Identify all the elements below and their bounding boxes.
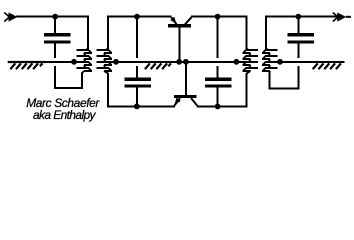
wire bottom rail middle box right: [197, 105, 248, 107]
wire top rail middle box left: [107, 16, 172, 18]
wire C4 top lead: [298, 17, 300, 34]
wire L2 bottom exit (middle box left edge): [107, 73, 109, 107]
inductor L2 (left transformer secondary, loops bulge left, spine x=108): [97, 49, 113, 74]
transistor Q2 (PNP, bottom) base bar: [174, 95, 197, 98]
wire C3 top lead with break hop at mid rail: [217, 17, 219, 78]
ground G2 (middle chassis ground hatching): [145, 63, 171, 69]
wire top rail middle box right: [191, 16, 247, 18]
wire C1 top lead: [54, 17, 56, 34]
inductor L4 (right transformer secondary, loops bulge right, spine x=266): [262, 49, 279, 74]
input arrow terminal: [4, 12, 17, 21]
node dot C3 bottom: [215, 104, 221, 110]
wire L4 top entry: [265, 16, 267, 50]
node dot C4 top: [295, 14, 301, 20]
capacitor C4 plates: [287, 33, 314, 43]
transistor Q1 emitter line: [171, 17, 176, 24]
caption text line 2: [33, 108, 95, 122]
wire C2 top lead with break hop at mid rail: [136, 17, 138, 78]
wire L1 top entry: [87, 16, 89, 50]
node dot C2 top: [134, 14, 140, 20]
wire mid rail middle (L2 tap to L3 tap): [108, 61, 243, 63]
transistor Q2 emitter line: [174, 98, 180, 106]
caption text line 1: [26, 96, 99, 110]
node dot L2 tap: [113, 59, 119, 65]
wire mid rail right (L4 tap to ground): [276, 61, 344, 63]
wire L3 top entry (middle box right edge): [246, 16, 248, 50]
inductor L3 (right transformer primary, loops bulge right, spine x=246.5): [241, 49, 259, 74]
capacitor C2 plates: [125, 78, 151, 88]
ground G3 (right chassis ground hatching): [313, 63, 341, 69]
transistor Q1 emitter arrow: [170, 17, 176, 24]
capacitor C1 plates: [44, 33, 71, 43]
wire C4 bottom lead with break hop at mid rail: [298, 43, 300, 89]
transistor Q2 emitter arrow: [174, 98, 180, 105]
capacitor C3 plates: [205, 78, 231, 88]
wire Q1 base lead: [179, 27, 181, 62]
node dot C2 bottom: [134, 104, 140, 110]
output arrow terminal: [333, 12, 351, 21]
wire C1 bottom lead with break hop at mid rail: [54, 43, 56, 89]
transistor Q2 collector line: [191, 98, 197, 106]
wire Q2 base lead: [185, 62, 187, 95]
node dot L3 tap: [234, 59, 240, 65]
wire bottom rail right box: [269, 88, 300, 90]
wire L1 bottom exit: [81, 73, 83, 90]
wire L3 bottom exit (middle box right edge): [246, 73, 248, 107]
node dot L4 tap: [277, 59, 283, 65]
node dot Q1 base: [176, 59, 182, 65]
wire L4 bottom exit: [269, 73, 271, 90]
wire bottom rail middle box left: [107, 105, 175, 107]
node dot Q2 base: [183, 59, 189, 65]
node dot C1 top: [52, 14, 58, 20]
wire L2 top entry (middle box left edge): [107, 16, 109, 50]
wire mid rail left (ground to L1 tap): [8, 61, 79, 63]
node dot L1 tap: [71, 59, 77, 65]
wire bottom rail left box: [54, 87, 83, 89]
ground G1 (left chassis ground line + hatching): [8, 62, 45, 69]
wire C2 bottom lead: [136, 88, 138, 108]
wire top rail left box: [16, 16, 89, 18]
inductor L1 (left transformer primary, loops bulge left, spine x=88): [75, 49, 92, 74]
wire C3 bottom lead: [217, 88, 219, 108]
node dot C3 top: [215, 14, 221, 20]
transistor Q1 (PNP, top) base bar: [168, 24, 191, 27]
transistor Q1 collector line: [185, 17, 191, 24]
wire top rail right box: [265, 16, 337, 18]
